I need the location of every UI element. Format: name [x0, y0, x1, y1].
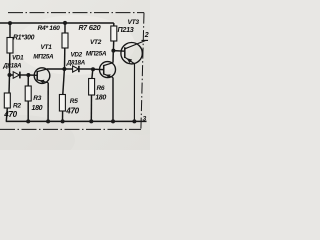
wire VT1 base: [28, 74, 37, 76]
wire R5 bottom: [62, 111, 64, 121]
node VT1 emitter bottom: [46, 119, 50, 123]
wire R1 bottom: [9, 53, 11, 75]
wire R3 top: [27, 75, 29, 86]
svg-text:R3: R3: [33, 95, 41, 102]
node top-left: [8, 21, 12, 25]
svg-text:620: 620: [89, 23, 102, 32]
node top R4: [63, 21, 67, 25]
wire R6 top: [91, 69, 94, 78]
wire VT1 emitter down: [47, 83, 49, 122]
svg-text:Д818А: Д818А: [2, 62, 22, 69]
svg-text:2: 2: [144, 32, 149, 39]
wire R3 bottom: [27, 101, 29, 121]
svg-text:VT2: VT2: [90, 39, 102, 46]
diode VD1: [13, 72, 19, 79]
wire VT2 emitter down: [112, 78, 114, 122]
transistor VT2: [100, 62, 116, 78]
wire VD1 anode: [10, 74, 14, 76]
transistor VT1: [34, 68, 50, 84]
svg-text:VT1: VT1: [41, 44, 53, 51]
wire R6 bottom: [90, 95, 92, 121]
node R4/VD2/R5: [62, 67, 66, 71]
svg-text:470: 470: [3, 110, 17, 119]
node VT2 emitter bottom: [111, 119, 115, 123]
wire R1 top: [9, 23, 11, 38]
wire VD1 cathode: [20, 74, 29, 76]
svg-text:МП25А: МП25А: [33, 53, 54, 60]
wire R5 top: [63, 69, 65, 95]
diode VD2: [73, 66, 79, 72]
node VT3 emitter bottom: [132, 119, 136, 123]
wire VT2 base: [93, 68, 104, 70]
svg-text:R2: R2: [13, 103, 21, 110]
svg-text:Д818А: Д818А: [66, 59, 86, 66]
svg-text:180: 180: [32, 105, 43, 112]
resistor R2: [4, 93, 10, 108]
wire VT2 collector up: [112, 51, 114, 63]
svg-text:R7: R7: [79, 25, 89, 32]
svg-text:П213: П213: [118, 25, 134, 34]
resistor R7: [111, 26, 117, 41]
node R5 bottom: [61, 119, 65, 123]
frame bottom: [0, 128, 141, 130]
svg-text:R1*300: R1*300: [13, 34, 35, 41]
wire VT3 emitter: [125, 57, 135, 121]
svg-text:R5: R5: [70, 98, 78, 105]
svg-text:R6: R6: [97, 85, 105, 92]
resistor R6: [89, 79, 95, 96]
wire R4 bottom: [64, 48, 66, 69]
transistor VT3: [121, 43, 142, 64]
node under R7: [111, 49, 115, 53]
frame top: [8, 12, 144, 14]
wire VD2 cathode: [79, 68, 93, 70]
resistor R4: [62, 33, 68, 48]
node A: [26, 73, 30, 77]
wire bottom bus: [6, 120, 147, 122]
wire VD2 anode: [64, 68, 72, 70]
wire VT1 collector: [47, 68, 64, 70]
node B: [91, 67, 95, 71]
wire R7 bottom: [112, 41, 114, 51]
resistor R5: [59, 95, 65, 112]
resistor R1: [7, 38, 13, 54]
wire R7 top: [113, 23, 115, 26]
wire VT3 base: [113, 50, 124, 53]
svg-text:R4* 160: R4* 160: [38, 25, 61, 32]
wire R2 top: [8, 75, 11, 93]
node R3 bottom: [26, 119, 30, 123]
wire top bus: [0, 22, 114, 24]
wire R2 bottom: [6, 108, 7, 121]
wire VT3 collector to terminal 2: [125, 40, 148, 48]
resistor R3: [25, 86, 31, 101]
frame right: [141, 13, 144, 130]
node R6 bottom: [89, 119, 93, 123]
node VD1 left: [8, 73, 12, 77]
svg-text:470: 470: [65, 107, 79, 116]
svg-text:VD1: VD1: [12, 55, 24, 62]
svg-text:180: 180: [95, 95, 106, 102]
svg-text:МП25А: МП25А: [86, 51, 107, 58]
wire R4 top: [64, 23, 66, 33]
svg-text:VD2: VD2: [71, 52, 83, 59]
